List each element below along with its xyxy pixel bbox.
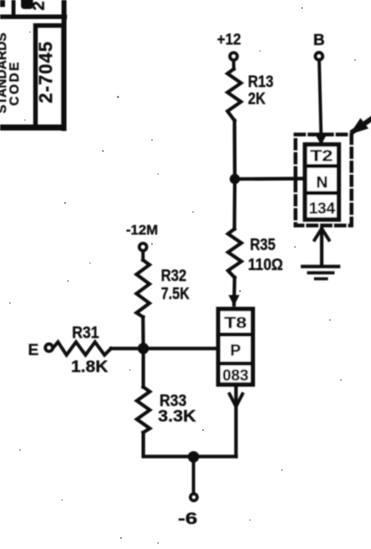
transistor T2 block [305, 145, 339, 220]
terminal E [28, 342, 53, 359]
resistor R35 [228, 229, 283, 278]
wire B to T2 with arrowhead [315, 60, 327, 145]
transistor T2 dashed outline [296, 135, 352, 226]
resistor R13 [228, 69, 274, 121]
wire R31 to node [111, 347, 143, 351]
svg-text:T8: T8 [224, 315, 247, 332]
svg-text:P: P [230, 343, 241, 360]
svg-text:E: E [28, 342, 39, 359]
resistor R33 [137, 387, 197, 433]
wire R13 to node [233, 121, 237, 180]
svg-text:083: 083 [223, 368, 249, 385]
svg-text:R31: R31 [72, 323, 99, 342]
svg-text:CODE: CODE [7, 60, 22, 106]
wire node to R33 [142, 349, 146, 388]
wire R35 to T8 with arrowhead [229, 278, 240, 307]
resistor R32 [137, 260, 191, 317]
resistor R31 [53, 323, 111, 376]
terminal -12M [126, 222, 158, 251]
svg-text:R32: R32 [161, 266, 187, 285]
wire R33 to bottom rail [143, 433, 236, 457]
svg-text:-6: -6 [178, 509, 198, 528]
svg-text:R35: R35 [250, 235, 276, 254]
title block top row cut-off glyphs [0, 0, 48, 11]
svg-text:2: 2 [29, 1, 48, 10]
wire T2 emitter to ground with up arrowhead [315, 229, 330, 267]
node junction E/R32/R33/T8 [138, 343, 149, 354]
svg-text:134: 134 [309, 201, 335, 218]
wire R32 to node E [141, 317, 145, 349]
svg-text:-12M: -12M [126, 222, 158, 238]
title block corner table [0, 0, 67, 131]
wire -12M to R32 [141, 251, 144, 260]
node junction at R13/R35 [230, 174, 240, 184]
wire node to R35 [233, 179, 237, 229]
terminal -6 [178, 494, 198, 528]
node junction bottom rail [188, 451, 199, 462]
svg-text:3.3K: 3.3K [158, 407, 197, 426]
terminal B [313, 32, 325, 60]
title block text 2-7045 [35, 41, 56, 103]
svg-text:B: B [313, 32, 325, 49]
wire node to T8 base [143, 347, 218, 351]
title block text STANDARDS CODE [0, 32, 22, 113]
svg-text:+12: +12 [217, 32, 241, 49]
wire T8 emitter down with arrowhead [230, 387, 243, 457]
svg-text:T2: T2 [310, 148, 333, 165]
terminal +12 [217, 32, 241, 61]
svg-text:2-7045: 2-7045 [35, 41, 56, 103]
pointer arrow to T2 [350, 117, 371, 135]
wire node to T2 base [235, 177, 305, 181]
wire rail to -6 [192, 457, 195, 494]
svg-text:2K: 2K [248, 89, 266, 108]
ground [301, 265, 341, 281]
svg-text:1.8K: 1.8K [71, 357, 109, 376]
wire +12 to R13 [232, 61, 235, 70]
transistor T8 block [218, 309, 253, 385]
svg-text:7.5K: 7.5K [161, 284, 190, 303]
svg-text:N: N [316, 175, 328, 192]
svg-text:110Ω: 110Ω [248, 255, 283, 274]
